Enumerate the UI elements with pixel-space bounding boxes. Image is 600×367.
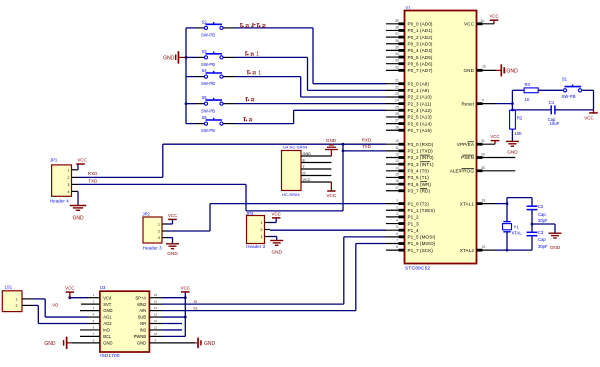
svg-text:XTAL: XTAL [512, 231, 523, 236]
svg-text:18: 18 [482, 199, 486, 203]
svg-text:3: 3 [93, 306, 95, 310]
svg-text:29: 29 [481, 153, 485, 157]
svg-text:19: 19 [482, 245, 486, 249]
svg-text:S5: S5 [202, 95, 208, 100]
svg-text:GND: GND [506, 68, 518, 74]
svg-text:3: 3 [261, 235, 263, 239]
svg-text:VCC: VCC [168, 213, 177, 218]
svg-text:P3_2 (INT0): P3_2 (INT0) [408, 155, 434, 160]
svg-text:VCC: VCC [77, 157, 86, 162]
svg-text:4: 4 [396, 219, 398, 223]
svg-text:SL: SL [193, 307, 198, 311]
svg-text:31: 31 [481, 139, 485, 143]
svg-text:P2_6 (A14): P2_6 (A14) [408, 121, 433, 126]
svg-text:P2_0 (A8): P2_0 (A8) [408, 81, 430, 86]
svg-text:S6: S6 [202, 115, 208, 120]
svg-text:GND: GND [137, 340, 146, 345]
svg-text:GND: GND [103, 308, 112, 313]
svg-text:XTAL1: XTAL1 [460, 201, 475, 206]
svg-text:T: T [303, 165, 306, 169]
svg-text:GND: GND [103, 340, 112, 345]
svg-text:9: 9 [155, 338, 157, 342]
svg-text:Cap: Cap [538, 212, 546, 217]
svg-text:P0_1 (AD1): P0_1 (AD1) [408, 28, 433, 33]
svg-text:VCd: VCd [103, 295, 112, 300]
svg-text:JP2: JP2 [143, 212, 151, 217]
svg-text:5: 5 [93, 319, 95, 323]
svg-text:2: 2 [16, 304, 18, 308]
svg-text:P1_3: P1_3 [408, 221, 419, 226]
svg-text:P0_0 (AD0): P0_0 (AD0) [408, 22, 433, 27]
svg-text:SI: SI [194, 300, 198, 304]
svg-text:22: 22 [395, 85, 399, 89]
svg-text:VCC: VCC [326, 193, 336, 198]
svg-text:XTAL2: XTAL2 [460, 248, 475, 253]
svg-text:AIN: AIN [139, 308, 146, 313]
svg-text:28: 28 [395, 125, 399, 129]
svg-text:ISD1700: ISD1700 [100, 353, 120, 358]
svg-text:NR: NR [140, 321, 146, 326]
svg-text:GND: GND [163, 55, 175, 61]
svg-text:Header 3: Header 3 [246, 244, 265, 249]
svg-text:7: 7 [396, 239, 398, 243]
svg-text:8: 8 [396, 245, 398, 249]
svg-text:6: 6 [396, 232, 398, 236]
svg-text:15: 15 [395, 172, 399, 176]
svg-text:InO: InO [103, 328, 110, 333]
svg-text:C3: C3 [538, 230, 544, 235]
svg-text:VCC: VCC [464, 22, 475, 27]
svg-text:27: 27 [395, 119, 399, 123]
svg-text:14: 14 [395, 166, 399, 170]
svg-text:GND: GND [204, 341, 216, 347]
svg-text:VCC: VCC [584, 115, 593, 120]
svg-text:P2_4 (A12): P2_4 (A12) [408, 108, 433, 113]
svg-text:1: 1 [16, 297, 18, 301]
svg-text:1: 1 [158, 223, 160, 227]
svg-text:U4 HC-SR04: U4 HC-SR04 [283, 144, 308, 149]
svg-text:4: 4 [68, 190, 70, 194]
svg-text:BCL: BCL [103, 334, 112, 339]
svg-text:1: 1 [396, 199, 398, 203]
svg-text:SW-PB: SW-PB [201, 128, 215, 133]
svg-text:R3: R3 [525, 82, 531, 87]
svg-text:12: 12 [395, 153, 399, 157]
svg-text:GND: GND [72, 215, 84, 221]
svg-text:P0_7 (AD7): P0_7 (AD7) [408, 68, 433, 73]
svg-text:P1_2: P1_2 [408, 215, 419, 220]
svg-text:2: 2 [158, 230, 160, 234]
svg-text:GND: GND [507, 150, 518, 155]
svg-text:VCC: VCC [303, 178, 311, 182]
svg-text:VCC: VCC [181, 285, 190, 290]
svg-text:2: 2 [261, 228, 263, 232]
svg-text:Reset: Reset [461, 101, 474, 106]
svg-text:1K: 1K [525, 97, 530, 102]
svg-text:STC89C52: STC89C52 [405, 266, 430, 272]
svg-text:P3_1 (TXD): P3_1 (TXD) [408, 149, 434, 154]
svg-text:21: 21 [395, 79, 399, 83]
svg-text:7: 7 [93, 332, 95, 336]
svg-text:PSEN: PSEN [461, 155, 474, 160]
svg-text:P3_0 (RXD): P3_0 (RXD) [408, 142, 434, 147]
svg-text:P3_3 (INT1): P3_3 (INT1) [408, 162, 434, 167]
svg-text:Y1: Y1 [514, 225, 520, 230]
svg-text:SVT: SVT [103, 302, 112, 307]
svg-text:SW-PB: SW-PB [201, 81, 215, 86]
svg-text:34: 34 [395, 52, 399, 56]
svg-text:O: O [303, 171, 306, 175]
svg-text:33: 33 [395, 59, 399, 63]
svg-text:P1_5 (MOSI): P1_5 (MOSI) [408, 235, 436, 240]
svg-text:35: 35 [395, 45, 399, 49]
svg-text:P3_4 (T0): P3_4 (T0) [408, 169, 430, 174]
svg-text:2: 2 [93, 300, 95, 304]
svg-text:TXD: TXD [88, 178, 97, 183]
svg-text:20: 20 [482, 64, 486, 68]
svg-text:VO: VO [52, 302, 59, 307]
svg-text:SW-PB: SW-PB [562, 94, 576, 99]
svg-text:6: 6 [93, 325, 95, 329]
svg-text:3: 3 [396, 212, 398, 216]
svg-text:S4: S4 [202, 68, 208, 73]
svg-text:9: 9 [482, 99, 484, 103]
svg-text:10: 10 [395, 139, 399, 143]
svg-text:P2_1 (A9): P2_1 (A9) [408, 88, 430, 93]
svg-text:P3_6 (WR): P3_6 (WR) [408, 182, 432, 187]
svg-text:TXD: TXD [362, 144, 371, 149]
svg-text:2: 2 [396, 205, 398, 209]
svg-text:U1: U1 [406, 5, 412, 10]
svg-text:P2_3 (A11): P2_3 (A11) [408, 101, 432, 106]
svg-text:10: 10 [154, 332, 158, 336]
svg-text:14: 14 [154, 306, 158, 310]
svg-text:32: 32 [395, 65, 399, 69]
svg-text:P1_6 (MISO): P1_6 (MISO) [408, 241, 436, 246]
svg-text:P3_7 (RD): P3_7 (RD) [408, 188, 431, 193]
svg-text:P1_0 (T2): P1_0 (T2) [408, 201, 430, 206]
svg-text:3: 3 [158, 236, 160, 240]
svg-text:P3_5 (T1): P3_5 (T1) [408, 175, 430, 180]
svg-text:SW-PB: SW-PB [201, 108, 215, 113]
svg-text:11: 11 [395, 146, 399, 150]
svg-text:39: 39 [395, 19, 399, 23]
svg-text:GND: GND [167, 251, 178, 256]
svg-text:VCC: VCC [490, 134, 499, 139]
svg-text:RXD: RXD [88, 171, 98, 176]
svg-text:U3: U3 [100, 285, 106, 290]
svg-text:GND: GND [303, 152, 312, 156]
svg-text:SP+A: SP+A [135, 295, 146, 300]
svg-text:S1: S1 [562, 77, 568, 82]
svg-text:25: 25 [395, 105, 399, 109]
svg-text:38: 38 [395, 25, 399, 29]
svg-text:AG2: AG2 [103, 321, 112, 326]
svg-text:8: 8 [93, 338, 95, 342]
svg-text:S2: S2 [202, 19, 208, 24]
svg-text:P0_5 (AD5): P0_5 (AD5) [408, 55, 433, 60]
svg-text:Header 4: Header 4 [50, 198, 69, 203]
svg-text:16: 16 [154, 293, 158, 297]
svg-text:17: 17 [395, 186, 399, 190]
svg-text:GND: GND [44, 341, 56, 347]
svg-text:23: 23 [395, 92, 399, 96]
svg-text:C2: C2 [538, 204, 544, 209]
svg-text:P2_2 (A10): P2_2 (A10) [408, 95, 433, 100]
svg-text:P2_5 (A13): P2_5 (A13) [408, 115, 433, 120]
svg-text:5: 5 [396, 225, 398, 229]
svg-text:LS1: LS1 [5, 284, 13, 289]
svg-text:MN2: MN2 [137, 302, 147, 307]
svg-text:S3: S3 [202, 49, 208, 54]
svg-text:24: 24 [395, 99, 399, 103]
svg-text:RXD: RXD [362, 137, 372, 142]
svg-text:ALE/PROG: ALE/PROG [450, 169, 475, 174]
svg-text:4: 4 [93, 312, 95, 316]
svg-text:37: 37 [395, 32, 399, 36]
svg-text:Header 3: Header 3 [143, 245, 162, 250]
svg-text:IN2: IN2 [140, 328, 147, 333]
svg-text:1: 1 [261, 221, 263, 225]
svg-text:P1_4: P1_4 [408, 228, 419, 233]
svg-text:GND: GND [271, 250, 282, 255]
svg-text:PWNB: PWNB [134, 334, 147, 339]
svg-text:16: 16 [395, 179, 399, 183]
svg-text:VCC: VCC [272, 211, 281, 216]
svg-text:SUB: SUB [138, 315, 147, 320]
svg-text:Cap: Cap [538, 237, 546, 242]
svg-text:JP1: JP1 [50, 158, 58, 163]
svg-text:1: 1 [93, 293, 95, 297]
svg-text:P0_3 (AD3): P0_3 (AD3) [408, 41, 433, 46]
svg-text:1: 1 [258, 70, 261, 76]
svg-text:P0_4 (AD4): P0_4 (AD4) [408, 48, 433, 53]
svg-text:R2: R2 [517, 116, 523, 121]
svg-text:13: 13 [395, 159, 399, 163]
svg-text:15: 15 [154, 300, 158, 304]
svg-text:10uF: 10uF [550, 121, 560, 126]
svg-text:40: 40 [481, 19, 485, 23]
svg-text:1: 1 [68, 168, 70, 172]
svg-text:26: 26 [395, 112, 399, 116]
svg-text:13: 13 [154, 312, 158, 316]
svg-text:1: 1 [256, 52, 259, 58]
svg-text:HC-SR04: HC-SR04 [282, 192, 300, 197]
svg-text:E: E [303, 158, 306, 162]
svg-text:30pF: 30pF [538, 244, 548, 249]
svg-text:VCC: VCC [489, 14, 498, 19]
svg-text:GND: GND [550, 245, 561, 250]
svg-text:GND: GND [463, 68, 474, 73]
svg-text:P2_7 (A15): P2_7 (A15) [408, 128, 433, 133]
svg-text:SW-PB: SW-PB [201, 62, 215, 67]
svg-text:C1: C1 [549, 100, 555, 105]
svg-text:30: 30 [481, 166, 485, 170]
svg-text:36: 36 [395, 39, 399, 43]
svg-text:10K: 10K [514, 131, 522, 136]
svg-text:P0_6 (AD6): P0_6 (AD6) [408, 61, 433, 66]
svg-text:2: 2 [68, 176, 70, 180]
svg-text:P1_1 (T2EX): P1_1 (T2EX) [408, 208, 436, 213]
svg-text:P1_7 (SCK): P1_7 (SCK) [408, 248, 434, 253]
svg-text:3: 3 [68, 183, 70, 187]
svg-text:12: 12 [154, 319, 158, 323]
svg-text:SW-PB: SW-PB [201, 33, 215, 38]
svg-text:JP3: JP3 [246, 211, 254, 216]
svg-text:11: 11 [154, 325, 157, 329]
svg-text:AG1: AG1 [103, 315, 112, 320]
svg-text:VCC: VCC [65, 286, 74, 291]
svg-text:VPP/EA: VPP/EA [457, 142, 475, 147]
svg-text:P0_2 (AD2): P0_2 (AD2) [408, 35, 433, 40]
svg-text:GND: GND [326, 138, 337, 143]
svg-text:30pF: 30pF [538, 218, 548, 223]
